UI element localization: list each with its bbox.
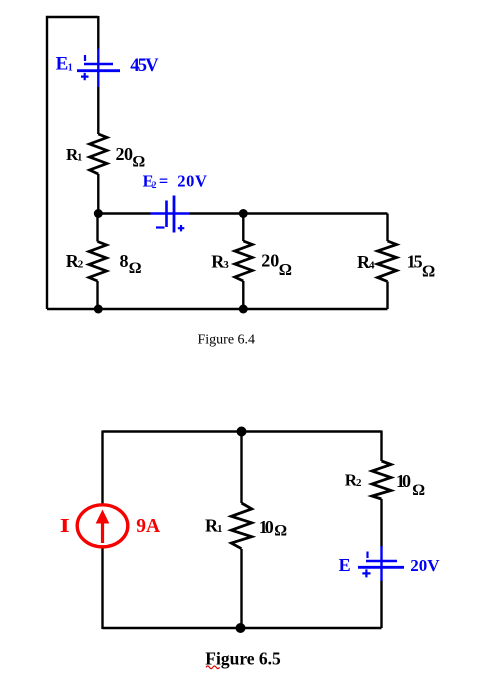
svg-text:4: 4: [369, 260, 375, 272]
svg-text:15: 15: [407, 252, 423, 272]
svg-text:2: 2: [356, 477, 362, 489]
svg-text:20: 20: [116, 144, 134, 164]
svg-text:1: 1: [217, 523, 223, 535]
svg-text:Ω: Ω: [279, 260, 292, 279]
svg-text:E: E: [339, 555, 351, 575]
svg-text:E: E: [56, 54, 69, 75]
svg-text:2: 2: [78, 259, 84, 271]
svg-text:9A: 9A: [136, 516, 160, 537]
svg-text:8: 8: [120, 251, 129, 271]
svg-text:20V: 20V: [177, 171, 207, 190]
svg-text:=: =: [159, 171, 168, 190]
svg-text:Ω: Ω: [132, 153, 145, 170]
svg-text:1: 1: [68, 63, 73, 74]
svg-text:20: 20: [261, 251, 279, 271]
svg-text:10: 10: [396, 471, 411, 491]
svg-text:2: 2: [152, 181, 157, 191]
svg-text:Ω: Ω: [412, 482, 425, 499]
svg-text:Figure 6.4: Figure 6.4: [198, 333, 256, 348]
svg-text:I: I: [60, 515, 70, 536]
svg-text:Ω: Ω: [422, 262, 435, 281]
svg-text:3: 3: [223, 259, 229, 271]
svg-text:Figure 6.5: Figure 6.5: [205, 649, 281, 669]
svg-text:1: 1: [77, 153, 82, 164]
svg-text:Ω: Ω: [274, 523, 287, 540]
svg-text:10: 10: [259, 517, 274, 537]
svg-text:Ω: Ω: [129, 260, 142, 277]
svg-text:20V: 20V: [410, 556, 440, 575]
svg-text:45V: 45V: [130, 56, 159, 76]
